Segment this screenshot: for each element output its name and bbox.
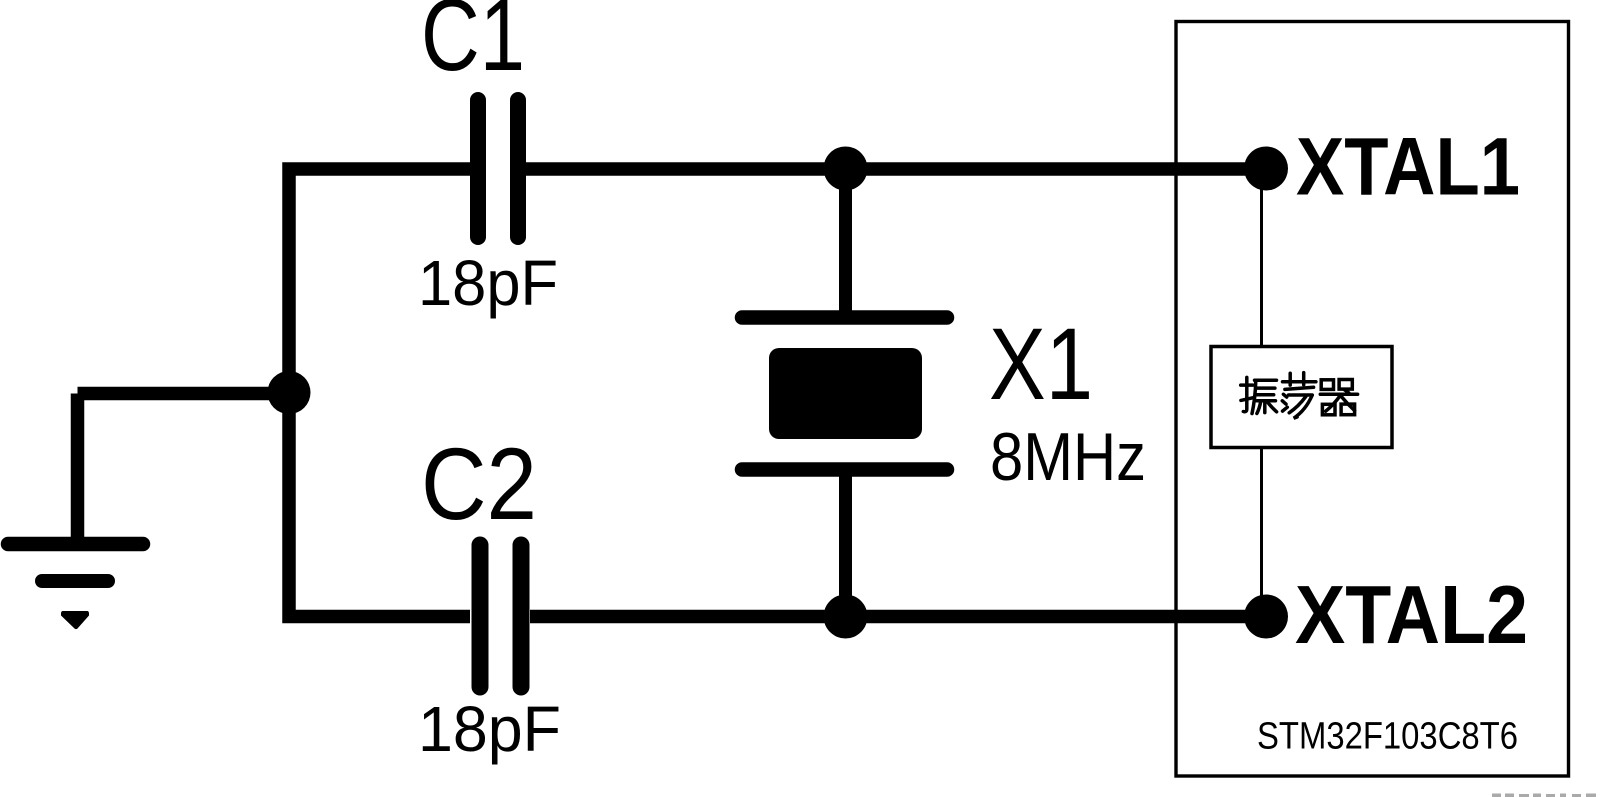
wire: top net from C1 to XTAL1 (526, 162, 1248, 176)
svg-text:C2: C2 (421, 427, 537, 541)
IC U1 STM32F103C8T6 box (1176, 22, 1569, 777)
crystal bottom plate (742, 462, 947, 477)
pin XTAL1 node (1244, 147, 1288, 191)
oscillator internal wire (XTAL1 to oscillator block) (1260, 168, 1263, 347)
ground (8, 394, 143, 630)
wire: crystal top lead (839, 169, 852, 317)
wire: bottom net from C2 to XTAL2 (530, 610, 1248, 624)
crystal top plate (742, 310, 947, 325)
振 (1243, 377, 1247, 411)
crystal X1 (742, 169, 947, 616)
label 振荡器 (hand-drawn glyphs) (1241, 373, 1358, 419)
capacitor C2 (480, 545, 521, 687)
器 (1321, 380, 1333, 390)
svg-text:X1: X1 (989, 307, 1093, 421)
svg-text:8MHz: 8MHz (990, 419, 1146, 495)
svg-text:18pF: 18pF (418, 693, 561, 765)
capacitor C1 (478, 100, 518, 237)
wire: ground branch horizontal (78, 387, 290, 401)
node: bottom junction at crystal (824, 595, 868, 639)
svg-text:XTAL2: XTAL2 (1295, 568, 1528, 661)
svg-text:XTAL1: XTAL1 (1296, 122, 1520, 213)
oscillator internal wire (oscillator block to XTAL2) (1260, 446, 1263, 616)
svg-text:STM32F103C8T6: STM32F103C8T6 (1257, 716, 1518, 758)
node: top junction at crystal (824, 147, 868, 191)
svg-text:18pF: 18pF (418, 247, 558, 319)
watermark fragment bottom right (1492, 794, 1596, 797)
oscillator block 振荡器 box (1211, 347, 1392, 448)
node: left junction (268, 371, 311, 414)
荡 (1283, 380, 1316, 384)
wire: crystal bottom lead (839, 470, 852, 616)
pin XTAL2 node (1244, 595, 1288, 639)
svg-text:C1: C1 (421, 0, 525, 92)
crystal body (769, 348, 922, 439)
wire: left loop (top wire to C1, left vertical, bottom wire to C2) (289, 169, 470, 617)
